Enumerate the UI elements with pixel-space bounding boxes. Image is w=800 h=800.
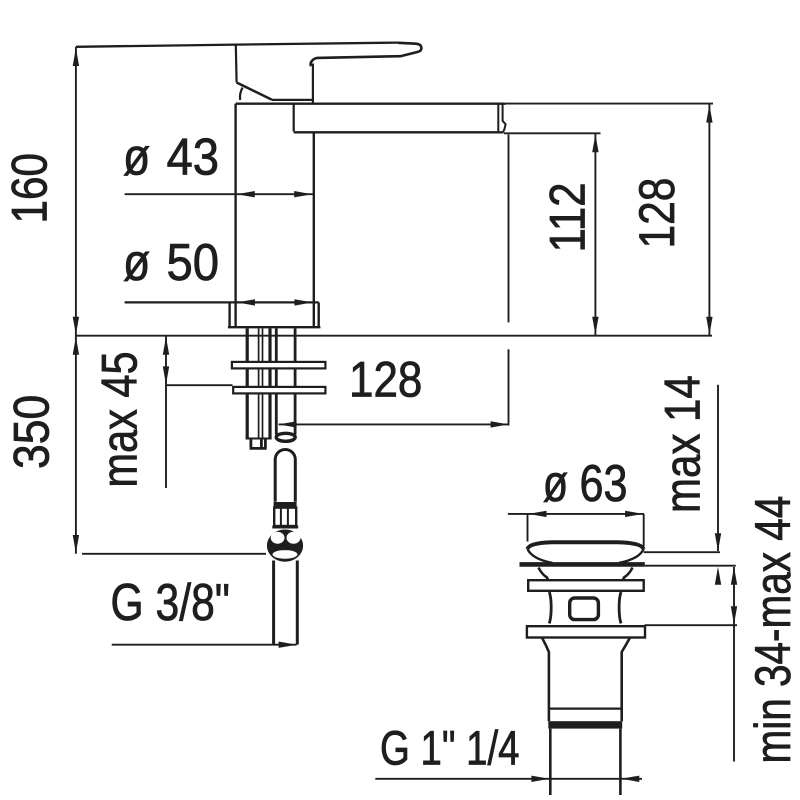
- threaded rod right wall: [268, 328, 271, 438]
- handle lever (tip and underside): [311, 43, 422, 66]
- handle left wall: [235, 45, 238, 83]
- dim G1 1/4 line: [375, 778, 642, 780]
- waste square hole: [570, 598, 599, 620]
- svg-text:128: 128: [349, 351, 422, 407]
- arrow o50 right: [295, 299, 313, 305]
- base bottom edge: [228, 326, 321, 328]
- svg-text:max 14: max 14: [654, 375, 710, 513]
- plug rim left curve: [528, 549, 553, 563]
- handle foot curve: [240, 88, 243, 100]
- dim min34-max44 vertical line: [733, 567, 735, 762]
- spout root seam: [293, 104, 295, 132]
- rod inner line 1: [258, 328, 260, 438]
- arrow G1 1/4 left: [531, 776, 549, 782]
- hose lower walls: [274, 561, 298, 645]
- flange2 line to min34 dim: [645, 624, 738, 626]
- arrow max14 up: [715, 567, 721, 585]
- dim o63 line: [508, 513, 644, 515]
- arrow 128h left: [279, 421, 297, 427]
- nut shoulder: [272, 526, 298, 529]
- svg-text:max 45: max 45: [91, 351, 148, 487]
- waste flange 1: [528, 580, 644, 591]
- dim o50 line: [125, 301, 319, 303]
- waste taper left: [542, 638, 549, 660]
- spout tip panel line: [497, 104, 499, 131]
- arrow max45 top: [163, 337, 169, 355]
- waste thread band: [548, 721, 622, 728]
- plug underside thick band: [520, 562, 645, 567]
- arrow o43 right: [294, 191, 312, 197]
- plug cap dome: [528, 542, 644, 549]
- arrow o43 left: [237, 191, 255, 197]
- spout tip projection line lower: [508, 349, 510, 425]
- dim 112 vertical line: [594, 133, 596, 335]
- dimension 160/350 vertical line: [75, 47, 77, 554]
- hose top arc: [275, 449, 295, 459]
- hose nut: [274, 508, 296, 526]
- dim max14 vertical line: [717, 385, 719, 551]
- waste tail pipe walls: [550, 729, 620, 795]
- arrow 128v bottom: [706, 317, 712, 335]
- arrow 160 bottom: [73, 317, 79, 335]
- dim 350 bottom line: [82, 553, 266, 555]
- waste taper right: [622, 638, 630, 660]
- spout underside extension line: [504, 132, 601, 134]
- handle right wall: [312, 64, 314, 104]
- base right wall: [318, 302, 320, 327]
- spout top extension line: [506, 103, 713, 105]
- arrow 350 top: [73, 337, 79, 355]
- dim o43 line: [125, 193, 314, 195]
- svg-text:128: 128: [629, 178, 685, 249]
- connector ring: [267, 530, 303, 562]
- arrow 128v top: [706, 105, 712, 123]
- spout tip face: [503, 104, 506, 132]
- arrow o50 left: [237, 299, 255, 305]
- handle lower-left diagonal: [237, 83, 272, 100]
- svg-text:G 3/8": G 3/8": [111, 574, 230, 632]
- waste flange 2: [527, 626, 645, 637]
- dim G3/8 lower line: [112, 644, 297, 646]
- supply tube bottom rim: [276, 433, 295, 441]
- spout underside: [294, 131, 504, 133]
- body left wall: [234, 104, 236, 328]
- arrow max45 bottom: [163, 366, 169, 384]
- arrow min34 up: [731, 567, 737, 585]
- arrow 160 top: [73, 48, 79, 66]
- rod end shoulder: [246, 438, 272, 440]
- supply tube left wall: [275, 328, 278, 434]
- arrow 350 bottom: [73, 535, 79, 553]
- hose upper walls: [275, 460, 295, 502]
- waste neck right: [623, 568, 633, 581]
- arrow 128h right: [491, 421, 509, 427]
- rod end cap: [250, 439, 267, 449]
- arrow o63 right: [625, 511, 643, 517]
- svg-text:112: 112: [539, 182, 595, 252]
- o63 witness lines: [528, 514, 644, 546]
- arrow G1 1/4 right: [621, 776, 639, 782]
- arrow G3/8: [279, 642, 297, 648]
- svg-text:350: 350: [4, 395, 60, 469]
- mounting surface line: [76, 335, 712, 337]
- supply tube right wall: [294, 328, 297, 434]
- upper mounting plate: [232, 362, 326, 369]
- waste body lower edge: [549, 707, 622, 709]
- dim 128 vertical line: [708, 104, 710, 336]
- dim max45 lower line: [166, 384, 233, 386]
- svg-text:min 34-max 44: min 34-max 44: [745, 496, 800, 764]
- lower mounting plate: [233, 387, 325, 394]
- arrow max14 down: [715, 533, 721, 551]
- svg-text:43: 43: [167, 127, 220, 186]
- svg-text:ø: ø: [123, 234, 150, 292]
- dim max45 vertical line: [165, 336, 167, 488]
- arrow 112 bottom: [592, 317, 598, 335]
- waste neck left: [539, 568, 549, 581]
- nut facet lines: [281, 508, 288, 526]
- handle bottom edge: [272, 99, 314, 101]
- base left wall: [228, 302, 230, 327]
- waste upper body left: [549, 592, 551, 623]
- svg-text:50: 50: [167, 233, 220, 292]
- svg-text:ø: ø: [543, 453, 568, 512]
- plug rim right curve: [619, 549, 644, 563]
- rod inner line 2: [262, 328, 264, 438]
- basin plane line to min34 dim: [645, 565, 736, 567]
- arrow o63 left: [529, 511, 547, 517]
- waste body walls: [549, 660, 622, 722]
- waste upper body right: [619, 592, 621, 623]
- wire: top extension line + handle top edge: [76, 43, 398, 47]
- svg-text:160: 160: [1, 153, 57, 223]
- body/spout top edge: [236, 102, 506, 104]
- hose collar: [274, 502, 297, 508]
- svg-text:ø: ø: [123, 128, 150, 186]
- svg-text:63: 63: [580, 455, 628, 513]
- body right wall: [313, 132, 315, 327]
- dim 128 horizontal line: [279, 423, 509, 425]
- spout tip projection line upper: [508, 135, 510, 323]
- arrow min34 down: [731, 606, 737, 624]
- threaded rod left wall: [246, 328, 249, 438]
- svg-text:G 1" 1/4: G 1" 1/4: [380, 723, 520, 776]
- arrow 112 top: [592, 134, 598, 152]
- cap edge line to max14 dim: [644, 551, 720, 553]
